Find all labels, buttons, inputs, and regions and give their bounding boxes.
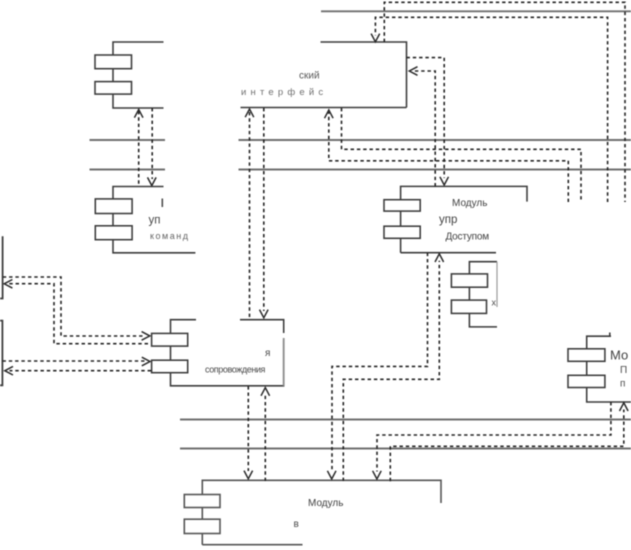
bus line L3 bbox=[180, 419, 631, 421]
arrow down into B8 top (x376) bbox=[373, 471, 382, 479]
arrow up into B1 bottom bbox=[134, 110, 143, 118]
svg-text:уп: уп bbox=[149, 215, 161, 227]
svg-text:П: П bbox=[620, 365, 627, 376]
component B2 Графический интерфейс bbox=[241, 42, 407, 108]
bus line L2 left segment bbox=[90, 169, 166, 171]
wire B2 to B6 (down) bbox=[263, 108, 265, 311]
wire B4 top to B2 right (left arrow) bbox=[413, 71, 435, 186]
svg-text:Доступом: Доступом bbox=[446, 232, 490, 243]
svg-text:Модуль: Модуль bbox=[308, 498, 343, 509]
bus line L2 right segment bbox=[239, 169, 631, 171]
wire B4 bottom to B8 top (down arrow) bbox=[332, 253, 428, 472]
component B7 Модуль П П (right edge clipped) bbox=[568, 333, 631, 403]
arrow up into B2 bottom (x249) bbox=[245, 109, 254, 117]
svg-text:команд: команд bbox=[150, 231, 189, 241]
wire B7 bottom to B8 top (down arrow) bbox=[377, 402, 611, 472]
arrow down into B2 top (x375) bbox=[371, 34, 380, 42]
component B9 clipped left upper bbox=[0, 236, 3, 298]
svg-text:я: я bbox=[265, 348, 270, 359]
wire top faded to B2 top (down arrow at 375) bbox=[375, 17, 607, 202]
arrow down into B3 top bbox=[148, 177, 157, 185]
bus line L4 bbox=[180, 448, 631, 450]
wire B6 bottom to B8 top (down arrow) bbox=[247, 386, 249, 471]
wire B6 to B2 (up) bbox=[249, 112, 251, 319]
svg-text:Модуль: Модуль bbox=[452, 198, 487, 209]
component B10 clipped left lower bbox=[0, 321, 2, 386]
svg-text:сопровождения: сопровождения bbox=[205, 365, 266, 375]
wire B8 top to B6 bottom (up arrow) bbox=[264, 395, 266, 482]
wire B2 right to B4 top (down arrow) bbox=[407, 58, 445, 178]
component B3 Модуль упр командами bbox=[95, 187, 195, 253]
arrow down into B8 top (x248) bbox=[244, 471, 253, 479]
arrow left into B10 (y370) bbox=[5, 366, 13, 375]
arrow left into B9 (y283) bbox=[4, 280, 12, 289]
arrow right into B6 tab2 bbox=[142, 357, 150, 366]
wire B2 top to faded right (via y2) bbox=[384, 2, 625, 202]
arrow down into B8 top (x331) bbox=[327, 471, 336, 479]
arrow up into B6 bottom (x265) bbox=[261, 388, 270, 396]
svg-text:х: х bbox=[492, 298, 497, 308]
svg-text:п: п bbox=[620, 379, 625, 390]
arrow up into B7 bottom (x623) bbox=[620, 403, 629, 411]
wire B3 to B1 (up) bbox=[138, 111, 140, 186]
bus line L1 right segment bbox=[239, 139, 631, 141]
component B6 Модуль сопровождения bbox=[152, 320, 284, 386]
svg-text:ский: ский bbox=[299, 71, 320, 82]
arrow down into B6 top (x263) bbox=[260, 310, 269, 318]
arrow left into B2 right (y71) bbox=[409, 67, 417, 76]
wire B8 top to B4 bottom (up arrow) bbox=[343, 261, 439, 481]
component B1 top-left (unnamed) bbox=[95, 42, 164, 108]
wire B6 tab1 to B9 (left arrow) bbox=[9, 284, 148, 344]
arrow down into B4 top (x444) bbox=[440, 177, 449, 185]
svg-text:Мо: Мо bbox=[610, 348, 628, 363]
wire B10 to B6 tab2 (right arrow) bbox=[3, 360, 146, 362]
wire B2 to faded-right, corner at y149 bbox=[342, 108, 582, 202]
bus line L0 top bbox=[321, 10, 631, 12]
wire B9 to B6 tab1 (right arrow) bbox=[3, 277, 145, 336]
wire faded-right to B2 (up arrow), corner at y161 bbox=[329, 112, 569, 202]
arrow right into B6 tab1 bbox=[142, 332, 150, 341]
wire B6 tab2 to B10 (left arrow) bbox=[10, 370, 152, 372]
component B4 Модуль упр Доступом bbox=[384, 186, 527, 252]
arrow up into B4 bottom (x439) bbox=[435, 254, 444, 262]
bus line L1 left segment bbox=[90, 139, 166, 141]
svg-text:в: в bbox=[294, 519, 299, 530]
component B8 Модуль в... (bottom) bbox=[184, 480, 441, 544]
component B5 small ХД component bbox=[451, 262, 497, 327]
wire B8 top to B7 bottom (up arrow) bbox=[390, 410, 624, 482]
wire B1 to B3 (down) bbox=[151, 108, 153, 179]
svg-text:упр: упр bbox=[439, 214, 457, 226]
svg-text:интерфейс: интерфейс bbox=[241, 87, 327, 98]
arrow up into B2 bottom (x328) bbox=[325, 110, 334, 118]
